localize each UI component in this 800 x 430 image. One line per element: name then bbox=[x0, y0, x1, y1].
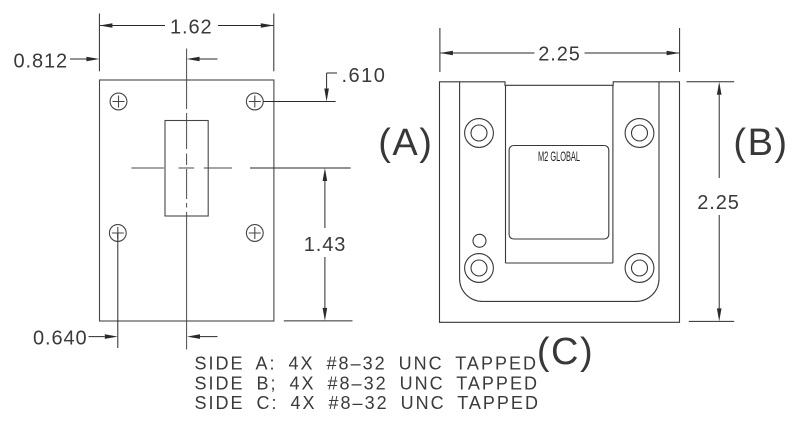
svg-text:.610: .610 bbox=[342, 65, 387, 87]
vertical centerline (left view) bbox=[186, 49, 188, 350]
mounting hole top-right (left view) bbox=[246, 93, 263, 110]
hole drop extension line for 0.640 bbox=[117, 233, 119, 348]
horizontal centerline (left view) bbox=[131, 167, 232, 169]
svg-text:0.640: 0.640 bbox=[33, 327, 88, 349]
counterbore hole top-right (right view) bbox=[625, 119, 654, 148]
mounting hole top-left (left view) bbox=[110, 93, 127, 110]
svg-text:2.25: 2.25 bbox=[538, 43, 581, 65]
leader line from top-right hole (.610) bbox=[263, 101, 335, 103]
plate outline left view bbox=[100, 80, 274, 321]
waveguide aperture cutout bbox=[165, 121, 208, 217]
svg-text:(B): (B) bbox=[733, 122, 788, 164]
dimension 1.43 bbox=[284, 168, 353, 321]
svg-text:M2 GLOBAL: M2 GLOBAL bbox=[538, 148, 580, 164]
mounting hole bottom-left (left view) bbox=[109, 225, 126, 242]
logo plate bbox=[509, 146, 609, 240]
raised boss outline with rounded bottom corners bbox=[460, 82, 659, 302]
svg-text:SIDE A: 4X #8–32 UNC TAPPED: SIDE A: 4X #8–32 UNC TAPPED bbox=[195, 354, 538, 374]
mounting hole bottom-right (left view) bbox=[246, 225, 263, 242]
waveguide channel left wall bbox=[505, 85, 507, 263]
dimension .610 bbox=[324, 73, 337, 102]
svg-text:1.43: 1.43 bbox=[304, 234, 347, 256]
counterbore hole top-left (right view) bbox=[465, 119, 494, 148]
dimension 0.812 bbox=[70, 57, 218, 62]
dimension 0.640 bbox=[89, 334, 218, 339]
dimension 1.62 bbox=[99, 14, 273, 72]
pin hole (right view) bbox=[473, 234, 486, 247]
svg-text:1.62: 1.62 bbox=[170, 16, 213, 38]
svg-text:SIDE C: 4X #8–32 UNC TAPPED: SIDE C: 4X #8–32 UNC TAPPED bbox=[195, 393, 540, 413]
svg-text:(C): (C) bbox=[537, 331, 594, 373]
svg-text:2.25: 2.25 bbox=[697, 192, 740, 214]
dimension 2.25 top bbox=[440, 28, 680, 72]
svg-text:0.812: 0.812 bbox=[14, 51, 69, 73]
dimension 2.25 right side bbox=[687, 82, 735, 322]
waveguide channel right wall bbox=[612, 85, 614, 263]
waveguide channel bottom bbox=[506, 262, 613, 264]
counterbore hole bottom-left (right view) bbox=[465, 254, 494, 283]
body outline right view with stepped top bbox=[440, 82, 680, 322]
svg-text:(A): (A) bbox=[378, 122, 433, 164]
counterbore hole bottom-right (right view) bbox=[625, 254, 654, 283]
centerline extension to 1.43 dimension bbox=[250, 167, 351, 169]
svg-text:SIDE B; 4X #8–32 UNC TAPPED: SIDE B; 4X #8–32 UNC TAPPED bbox=[195, 373, 539, 393]
